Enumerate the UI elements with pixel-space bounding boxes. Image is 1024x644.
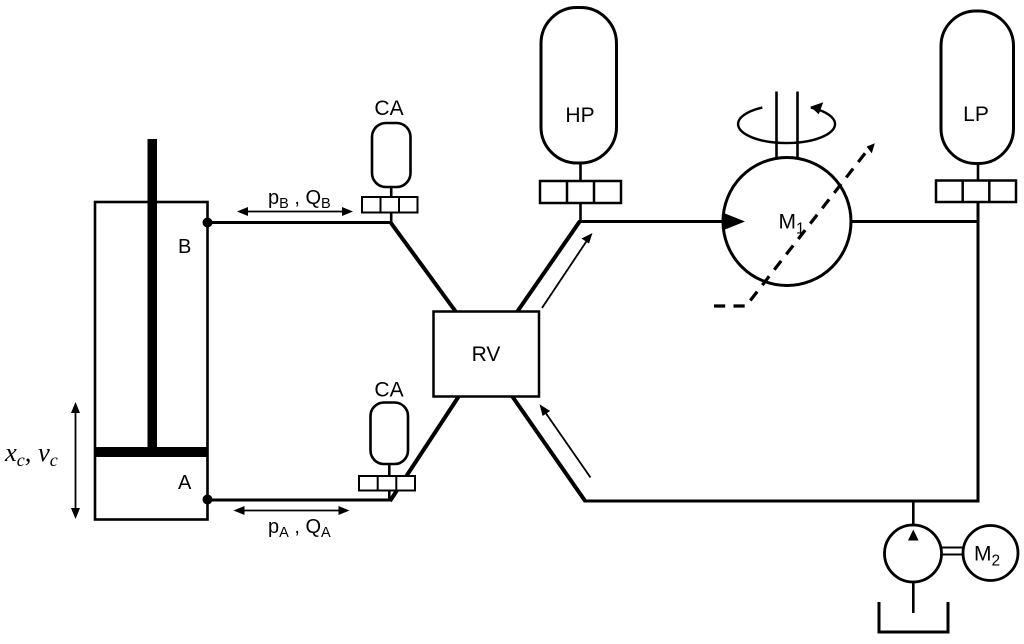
accumulator CA1 capsule (372, 123, 411, 187)
wire down to pump (912, 501, 915, 526)
arrowhead into M1 (723, 213, 746, 231)
wire HP junction to M1 (579, 220, 723, 223)
wire bottom return (584, 500, 980, 503)
M1 shaft (775, 92, 778, 160)
svg-text:CA: CA (374, 379, 403, 402)
stroke arrow x_c (71, 402, 80, 519)
piston (95, 447, 208, 457)
LP stem (977, 164, 980, 181)
svg-text:CA: CA (374, 97, 403, 120)
accumulator LP capsule (941, 11, 1014, 164)
HP stem (579, 163, 582, 181)
svg-text:RV: RV (472, 343, 501, 366)
wire right vertical (977, 202, 980, 501)
pump triangle (908, 530, 919, 541)
wire diagonal top-left to RV (391, 223, 456, 312)
HP throttle block (540, 181, 621, 203)
svg-text:HP: HP (565, 104, 594, 127)
piston rod (148, 139, 158, 452)
wire port B to CA junction (208, 221, 392, 224)
CA1 throttle block (362, 197, 418, 213)
accumulator HP capsule (541, 8, 617, 164)
motor M2 circle (963, 526, 1018, 581)
valve RV box (434, 312, 540, 397)
svg-text:A: A (178, 472, 192, 494)
arrow p_B Q_B (237, 207, 353, 216)
wire diagonal RV to HP junction (517, 221, 580, 312)
M1 rotation arrow (738, 108, 835, 143)
flow arrow upper (542, 233, 593, 308)
coupling shaft (942, 547, 964, 549)
M1 variable displacement dashed arrow (714, 151, 867, 306)
wire port A to CA junction (208, 499, 392, 502)
wire diagonal RV to bottom wire (512, 396, 586, 502)
wire pump to tank (912, 582, 915, 613)
CA2 stem lower (388, 491, 391, 502)
svg-text:LP: LP (963, 103, 989, 126)
node port A (203, 495, 213, 505)
arrow p_A Q_A (234, 506, 350, 515)
wire M1 to right vertical (851, 220, 979, 223)
CA2 throttle block (359, 476, 415, 491)
CA1 stem (390, 187, 393, 197)
CA1 stem lower (390, 213, 393, 225)
accumulator CA2 capsule (371, 403, 409, 465)
tank (879, 602, 948, 632)
LP throttle block (936, 181, 1016, 203)
wire diagonal bottom-left to RV (390, 396, 459, 501)
pump circle (885, 525, 942, 582)
CA2 stem (388, 464, 391, 476)
HP stem lower (579, 203, 582, 222)
motor M1 circle (723, 158, 851, 286)
node port B (203, 218, 213, 228)
svg-text:B: B (178, 236, 191, 258)
flow arrow lower (540, 404, 591, 477)
cylinder body (95, 202, 208, 520)
svg-text:xc, vc: xc, vc (4, 437, 58, 470)
